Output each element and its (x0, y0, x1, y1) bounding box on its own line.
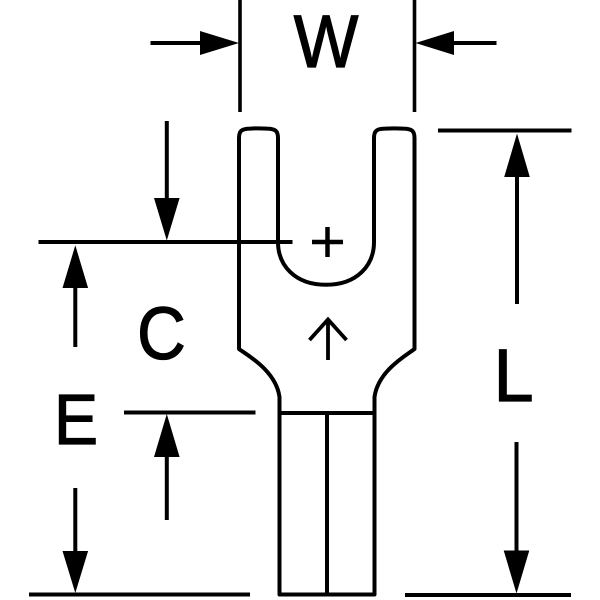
svg-text:C: C (137, 292, 186, 375)
E dimension arrow top (points up) (73, 286, 77, 347)
insertion direction arrow (310, 320, 347, 361)
bottom-right extension line (405, 593, 571, 597)
L dimension arrow top (points up) (515, 175, 519, 304)
W dimension arrow left (151, 41, 204, 45)
C lower dimension line (124, 411, 256, 415)
C/E upper extension line (39, 240, 293, 244)
svg-text:L: L (494, 335, 534, 417)
fork terminal outline (239, 128, 415, 594)
C dimension arrow bottom (points up) (165, 455, 169, 520)
W extension line left (238, 0, 242, 112)
W dimension arrow right (452, 41, 497, 45)
plus mark (slot arc center) (312, 240, 343, 245)
bottom-left extension line (29, 593, 250, 597)
svg-text:W: W (294, 1, 359, 84)
E dimension arrow bottom (points down) (73, 488, 77, 553)
C dimension arrow top (points down) (165, 121, 169, 202)
barrel center split line (325, 413, 329, 595)
barrel seam line (280, 411, 375, 415)
svg-text:E: E (54, 380, 98, 460)
L top extension line (438, 129, 572, 133)
W extension line right (413, 0, 417, 112)
L dimension arrow bottom (points down) (515, 442, 519, 552)
